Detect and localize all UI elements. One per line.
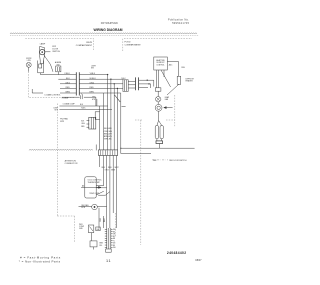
svg-text:ORG: ORG — [90, 82, 95, 84]
svg-text:ORG: ORG — [65, 82, 70, 84]
svg-text:SW: SW — [91, 67, 94, 69]
trunk wires below connector — [100, 156, 117, 229]
connector J1 — [76, 72, 79, 95]
svg-text:MTR: MTR — [60, 121, 65, 123]
svg-text:11: 11 — [106, 259, 111, 263]
svg-text:RED: RED — [66, 87, 71, 89]
trunk drop wires — [103, 75, 117, 150]
freezer compartment dashed box — [25, 39, 93, 98]
adaptive defrost control box — [154, 57, 168, 70]
svg-text:BLK: BLK — [66, 78, 70, 80]
small box on trunk — [95, 112, 99, 120]
svg-text:FRZR: FRZR — [86, 42, 92, 44]
svg-text:Y-BLK: Y-BLK — [90, 73, 96, 75]
svg-text:DEFROST: DEFROST — [186, 78, 195, 80]
ground plug box — [90, 241, 97, 250]
svg-text:Y-BLK: Y-BLK — [64, 73, 70, 75]
svg-text:ORG: ORG — [105, 169, 110, 171]
lamp socket — [38, 61, 44, 75]
svg-text:ORG: ORG — [181, 67, 186, 69]
wires J4 — [87, 121, 90, 128]
wire with capacitor symbol — [62, 94, 96, 107]
trunk connector block — [99, 150, 118, 156]
ref door switch — [155, 121, 163, 144]
svg-text:BRN-WH: BRN-WH — [104, 136, 112, 138]
connector end block — [106, 249, 112, 252]
svg-text:REF: REF — [153, 160, 156, 162]
svg-text:BLK-WH: BLK-WH — [104, 128, 112, 130]
wire compressor down — [158, 111, 160, 120]
wire ref door switch down — [158, 144, 160, 149]
diagonal jumper near trunk top — [115, 95, 126, 107]
defrost heater — [177, 76, 181, 84]
wire row 3 (ORG) — [60, 83, 76, 85]
svg-text:240484402: 240484402 — [167, 251, 186, 255]
dashed wire right of connector — [114, 213, 116, 236]
svg-text:W-BLK: W-BLK — [90, 78, 97, 80]
svg-text:* = Non-Illustrated Parts: * = Non-Illustrated Parts — [19, 259, 61, 263]
dash-dot label line — [152, 159, 168, 161]
connector J4 — [89, 117, 96, 129]
wire row 1 (Y-BLK) — [41, 74, 76, 76]
connector J2 — [123, 80, 128, 92]
svg-text:DEFROST: DEFROST — [156, 62, 164, 64]
wires below fan — [99, 216, 103, 228]
svg-text:SWITCH: SWITCH — [52, 51, 60, 53]
svg-text:DOOR: DOOR — [52, 49, 58, 51]
wires right of J3 — [139, 80, 154, 88]
wire from lamp to door switch — [45, 51, 51, 53]
svg-text:YEL: YEL — [99, 245, 102, 247]
svg-text:CONNECTOR: CONNECTOR — [65, 163, 78, 165]
defrost thermostat — [155, 88, 161, 91]
cabinet dashed border left — [57, 104, 74, 243]
svg-text:BLK: BLK — [104, 218, 106, 222]
thermostat arrow — [81, 186, 101, 188]
svg-text:FRZR: FRZR — [26, 58, 32, 60]
compressor circle — [155, 102, 162, 111]
hook at end of harness 2 — [95, 145, 97, 151]
wires from ADC bottom — [156, 70, 179, 95]
svg-text:LIGHT: LIGHT — [91, 65, 96, 67]
long wire to right — [121, 147, 195, 149]
svg-text:WIRING DIAGRAM: WIRING DIAGRAM — [94, 28, 123, 32]
svg-text:RED: RED — [90, 87, 95, 89]
svg-text:REF DOOR SWITCH: REF DOOR SWITCH — [169, 160, 187, 162]
wire row 5 (BRN) — [60, 92, 76, 94]
svg-text:BRN: BRN — [66, 92, 71, 94]
evap fan motor circle — [156, 91, 161, 102]
wire ADC to heater — [167, 62, 178, 77]
main harness connector — [105, 228, 113, 249]
wire harness bundle (top zigzag) — [10, 33, 199, 36]
wires right of J1 — [79, 75, 123, 93]
wire row B — [59, 108, 112, 110]
dashed partition lines — [135, 95, 175, 245]
run capacitor arrow — [164, 107, 173, 109]
svg-text:BRN: BRN — [90, 92, 95, 94]
wires to cold control — [96, 185, 106, 188]
svg-text:08/07: 08/07 — [195, 259, 202, 262]
wire row A — [59, 105, 108, 107]
wires J2 to J3 — [128, 82, 135, 89]
wire to ref label — [121, 153, 151, 155]
wire diagonal from lamp — [44, 55, 53, 72]
svg-text:RED-WH: RED-WH — [104, 133, 112, 135]
wire row 4 (RED) — [60, 87, 76, 89]
zigzag harness 2 — [29, 149, 93, 150]
food compartment dashed box — [123, 39, 192, 51]
wire row 2 (BLK) — [58, 78, 76, 80]
svg-text:ORN: ORN — [100, 217, 102, 222]
svg-text:CONTROL: CONTROL — [156, 65, 164, 67]
svg-text:COLD CONTROL: COLD CONTROL — [88, 180, 102, 182]
svg-text:COMP: COMP — [79, 226, 85, 228]
svg-text:# = Fast-Moving Parts: # = Fast-Moving Parts — [20, 255, 61, 259]
cold control box — [85, 177, 96, 198]
svg-text:WHT-BK: WHT-BK — [104, 139, 112, 141]
junction dots — [107, 74, 118, 89]
corner wire to x120.8 — [117, 93, 121, 154]
connector J3 — [136, 77, 139, 90]
wire down from switch — [91, 233, 93, 241]
svg-text:ORG-WH: ORG-WH — [104, 131, 113, 133]
svg-text:FOOD: FOOD — [125, 42, 132, 44]
trunk vertical wires — [97, 99, 100, 150]
diagonal adjust arrow — [96, 191, 104, 195]
